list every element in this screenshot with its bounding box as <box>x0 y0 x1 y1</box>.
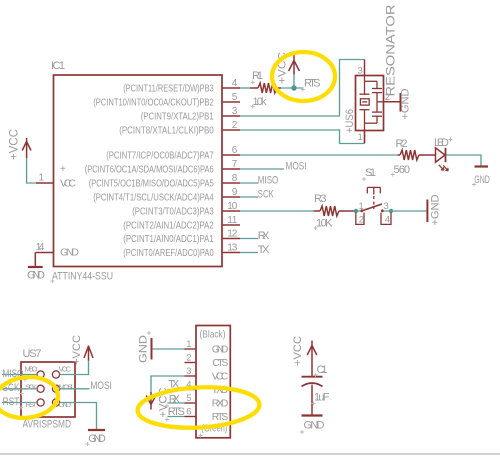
svg-text:GND: GND <box>304 420 325 432</box>
svg-text:6: 6 <box>232 145 238 156</box>
svg-text:+GND: +GND <box>430 194 442 225</box>
svg-text:+VCC: +VCC <box>292 336 304 366</box>
svg-text:US7: US7 <box>23 348 42 360</box>
svg-text:MOSI: MOSI <box>90 380 112 392</box>
svg-text:5: 5 <box>186 393 191 404</box>
svg-text:GND: GND <box>474 174 490 186</box>
svg-text:GND: GND <box>88 433 106 445</box>
svg-text:1: 1 <box>186 339 191 350</box>
svg-text:SCK: SCK <box>26 382 38 391</box>
svg-text:GND: GND <box>138 335 150 363</box>
svg-text:GND: GND <box>59 400 72 409</box>
svg-text:3: 3 <box>232 106 238 117</box>
svg-text:SCK: SCK <box>258 188 274 200</box>
svg-text:CTS: CTS <box>212 358 228 369</box>
svg-text:(PCINT1/AIN0/ADC1)PA1: (PCINT1/AIN0/ADC1)PA1 <box>123 234 214 245</box>
svg-text:10: 10 <box>227 201 237 212</box>
svg-text:VCC: VCC <box>59 365 72 374</box>
svg-text:(PCINT9/XTAL2)PB1: (PCINT9/XTAL2)PB1 <box>141 111 214 122</box>
svg-text:(PCINT7/ICP/OC0B/ADC7)PA7: (PCINT7/ICP/OC0B/ADC7)PA7 <box>106 150 214 161</box>
svg-text:(PCINT8/XTAL1/CLKI)PB0: (PCINT8/XTAL1/CLKI)PB0 <box>119 125 214 136</box>
svg-text:(Black): (Black) <box>200 330 226 341</box>
svg-text:3: 3 <box>384 201 389 212</box>
svg-text:TX: TX <box>258 244 270 256</box>
svg-text:MOSI: MOSI <box>286 160 307 172</box>
svg-text:ATTINY44-SSU: ATTINY44-SSU <box>52 270 113 282</box>
svg-text:(PCINT2/AIN1/ADC2)PA2: (PCINT2/AIN1/ADC2)PA2 <box>123 220 214 231</box>
svg-text:(PCINT11/RESET/DW)PB3: (PCINT11/RESET/DW)PB3 <box>123 83 214 94</box>
svg-text:RTS: RTS <box>304 77 321 89</box>
svg-text:11: 11 <box>227 215 237 226</box>
svg-text:1: 1 <box>359 201 364 212</box>
svg-text:+GND: +GND <box>400 88 412 119</box>
svg-text:AVRISPSMD: AVRISPSMD <box>23 419 72 431</box>
svg-text:+VCC: +VCC <box>71 335 83 365</box>
svg-text:3: 3 <box>186 366 191 377</box>
svg-text:R1: R1 <box>252 70 263 82</box>
svg-text:9: 9 <box>232 187 238 198</box>
svg-text:MISO: MISO <box>258 174 279 186</box>
svg-text:RX: RX <box>169 393 181 405</box>
svg-text:MOSI: MOSI <box>59 382 73 391</box>
svg-text:LED: LED <box>434 137 449 149</box>
svg-text:RTS: RTS <box>212 412 229 423</box>
svg-text:S1: S1 <box>365 167 376 179</box>
svg-text:10K: 10K <box>316 218 333 230</box>
svg-text:GND: GND <box>212 344 229 355</box>
svg-text:560: 560 <box>394 164 411 176</box>
svg-text:14: 14 <box>36 242 45 253</box>
svg-text:12: 12 <box>227 229 237 240</box>
svg-text:5: 5 <box>232 92 238 103</box>
svg-text:1: 1 <box>38 173 44 184</box>
svg-text:1uF: 1uF <box>314 392 330 404</box>
svg-text:2: 2 <box>232 120 238 131</box>
svg-text:(PCINT4/T1/SCL/USCK/ADC4)PA4: (PCINT4/T1/SCL/USCK/ADC4)PA4 <box>93 192 214 203</box>
svg-text:(PCINT5/OC1B/MISO/DO/ADC5)PA5: (PCINT5/OC1B/MISO/DO/ADC5)PA5 <box>89 178 214 189</box>
svg-text:(PCINT0/AREF/ADC0)PA0: (PCINT0/AREF/ADC0)PA0 <box>123 248 214 259</box>
svg-text:3: 3 <box>358 66 363 77</box>
svg-text:2: 2 <box>359 215 364 226</box>
svg-text:+: + <box>60 164 66 175</box>
svg-text:13: 13 <box>227 243 237 254</box>
svg-text:R3: R3 <box>314 193 327 205</box>
svg-text:MISO: MISO <box>25 364 38 373</box>
svg-text:RXD: RXD <box>212 398 229 409</box>
svg-text:4: 4 <box>385 215 390 226</box>
svg-text:+VCC: +VCC <box>9 129 21 160</box>
svg-text:GND: GND <box>27 270 45 282</box>
svg-text:RST: RST <box>3 396 20 408</box>
svg-text:R2: R2 <box>396 138 408 150</box>
svg-text:+US6: +US6 <box>344 109 356 133</box>
svg-text:2: 2 <box>186 353 191 364</box>
svg-text:1: 1 <box>358 132 363 143</box>
svg-text:VCC: VCC <box>212 371 229 382</box>
svg-text:(PCINT3/T0/ADC3)PA3: (PCINT3/T0/ADC3)PA3 <box>132 206 214 217</box>
svg-text:GND: GND <box>60 246 79 258</box>
svg-text:IC1: IC1 <box>51 60 65 72</box>
svg-text:8: 8 <box>232 173 238 184</box>
svg-text:(PCINT10/INT0/OC0A/CKOUT)PB2: (PCINT10/INT0/OC0A/CKOUT)PB2 <box>93 97 214 108</box>
svg-text:RESONATOR: RESONATOR <box>384 4 398 96</box>
svg-text:6: 6 <box>186 407 191 418</box>
svg-text:RTS: RTS <box>168 406 185 418</box>
svg-text:RX: RX <box>258 230 270 242</box>
svg-text:4: 4 <box>232 78 238 89</box>
svg-text:RST: RST <box>26 400 38 409</box>
svg-text:C1: C1 <box>317 364 328 376</box>
svg-text:7: 7 <box>232 159 238 170</box>
svg-text:VCC: VCC <box>60 178 76 190</box>
svg-text:(PCINT6/OC1A/SDA/MOSI/ADC6)PA6: (PCINT6/OC1A/SDA/MOSI/ADC6)PA6 <box>85 164 214 175</box>
